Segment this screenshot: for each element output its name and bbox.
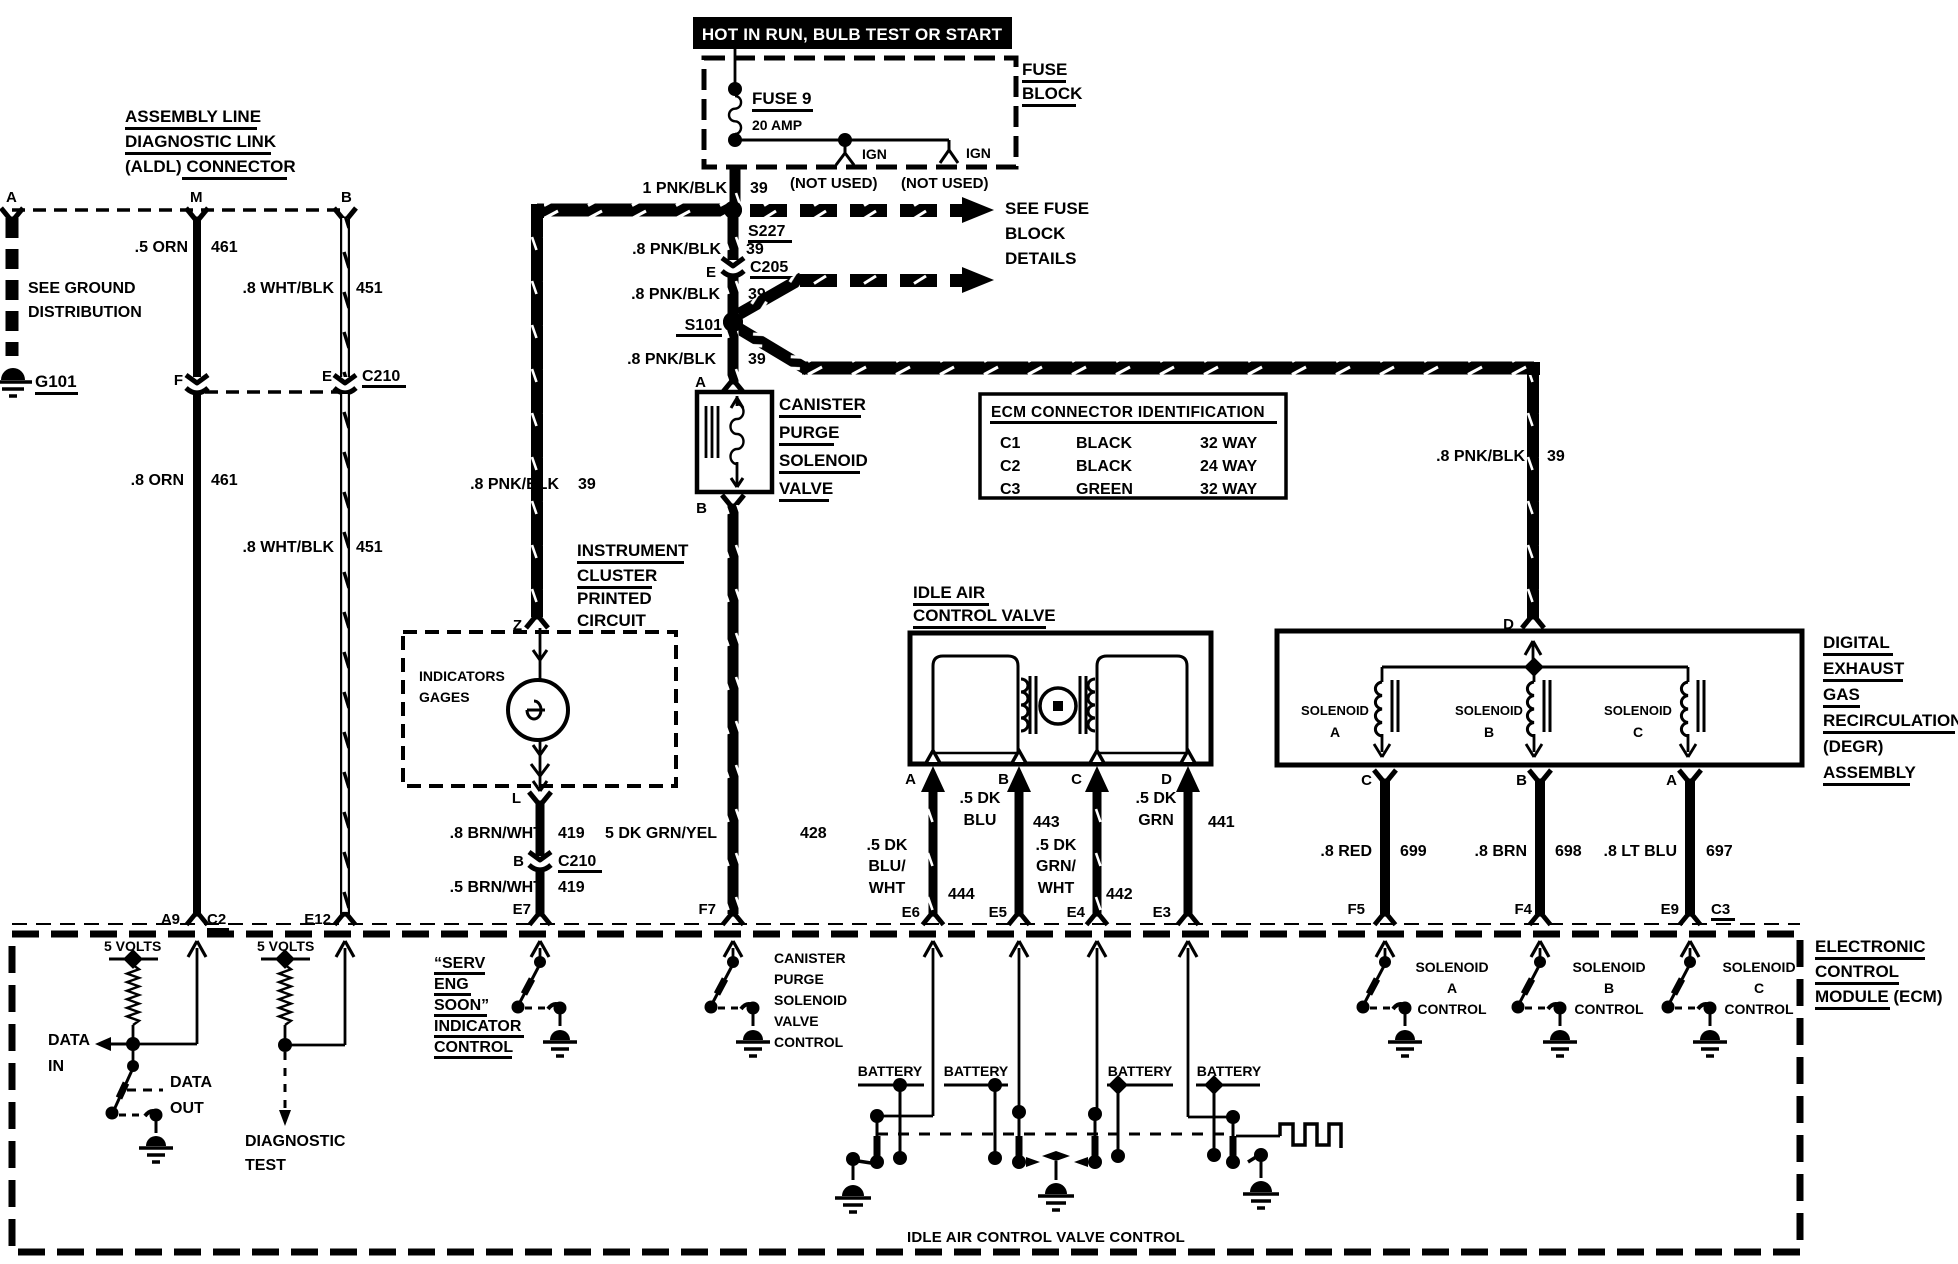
svg-text:E5: E5 (989, 904, 1007, 921)
svg-text:698: 698 (1555, 843, 1582, 860)
svg-text:697: 697 (1706, 843, 1733, 860)
svg-text:A: A (1666, 772, 1677, 789)
svg-text:A: A (695, 374, 706, 391)
svg-text:DATA: DATA (48, 1032, 91, 1049)
svg-text:IN: IN (48, 1058, 64, 1075)
svg-text:IGN: IGN (966, 145, 991, 161)
svg-text:461: 461 (211, 472, 238, 489)
svg-text:39: 39 (748, 351, 766, 368)
svg-text:HOT IN RUN, BULB TEST OR START: HOT IN RUN, BULB TEST OR START (702, 25, 1003, 44)
svg-text:32 WAY: 32 WAY (1200, 481, 1258, 498)
svg-text:(NOT USED): (NOT USED) (901, 175, 989, 192)
svg-text:TEST: TEST (245, 1157, 286, 1174)
svg-text:(DEGR): (DEGR) (1823, 737, 1883, 756)
svg-text:BATTERY: BATTERY (944, 1063, 1009, 1079)
svg-text:24 WAY: 24 WAY (1200, 458, 1258, 475)
svg-text:B: B (1604, 980, 1614, 996)
svg-text:BLACK: BLACK (1076, 458, 1132, 475)
svg-text:.8 PNK/BLK: .8 PNK/BLK (632, 241, 721, 258)
svg-text:C3: C3 (1711, 901, 1730, 918)
svg-text:SEE FUSE: SEE FUSE (1005, 199, 1089, 218)
svg-text:CANISTER: CANISTER (774, 950, 846, 966)
svg-text:444: 444 (948, 886, 975, 903)
svg-text:C1: C1 (1000, 435, 1021, 452)
svg-text:SOLENOID: SOLENOID (779, 451, 868, 470)
svg-text:FUSE: FUSE (1022, 60, 1067, 79)
svg-text:.8 PNK/BLK: .8 PNK/BLK (627, 351, 716, 368)
svg-text:.5 DK: .5 DK (1036, 837, 1077, 854)
svg-text:428: 428 (800, 825, 827, 842)
svg-text:.8 PNK/BLK: .8 PNK/BLK (631, 286, 720, 303)
svg-text:441: 441 (1208, 814, 1235, 831)
svg-text:BATTERY: BATTERY (858, 1063, 923, 1079)
svg-text:(ALDL) CONNECTOR: (ALDL) CONNECTOR (125, 157, 296, 176)
svg-text:B: B (1484, 724, 1494, 740)
svg-text:A: A (6, 189, 17, 206)
svg-text:.5 DK: .5 DK (1136, 790, 1177, 807)
svg-text:RECIRCULATION: RECIRCULATION (1823, 711, 1958, 730)
svg-text:GREEN: GREEN (1076, 481, 1133, 498)
svg-text:F4: F4 (1514, 901, 1532, 918)
svg-text:CLUSTER: CLUSTER (577, 566, 657, 585)
svg-text:E: E (706, 264, 716, 281)
svg-text:E3: E3 (1153, 904, 1171, 921)
svg-text:CONTROL: CONTROL (1724, 1001, 1794, 1017)
svg-text:.8 BRN: .8 BRN (1475, 843, 1527, 860)
svg-text:CIRCUIT: CIRCUIT (577, 611, 647, 630)
svg-text:MODULE (ECM): MODULE (ECM) (1815, 987, 1942, 1006)
svg-text:SOLENOID: SOLENOID (1455, 703, 1523, 718)
svg-text:CONTROL: CONTROL (1574, 1001, 1644, 1017)
svg-text:C: C (1754, 980, 1764, 996)
svg-text:F: F (174, 372, 183, 389)
svg-text:F5: F5 (1347, 901, 1365, 918)
svg-text:VALVE: VALVE (779, 479, 833, 498)
svg-text:C205: C205 (750, 259, 788, 276)
svg-text:E: E (322, 368, 332, 385)
svg-text:C210: C210 (362, 368, 400, 385)
svg-text:BLU: BLU (964, 812, 997, 829)
svg-text:A: A (905, 771, 916, 788)
svg-text:CONTROL: CONTROL (774, 1034, 844, 1050)
svg-text:“SERV: “SERV (434, 955, 486, 972)
svg-text:419: 419 (558, 825, 585, 842)
svg-text:1 PNK/BLK: 1 PNK/BLK (643, 180, 728, 197)
svg-text:.5 DK: .5 DK (960, 790, 1001, 807)
svg-text:BLOCK: BLOCK (1022, 84, 1083, 103)
svg-text:B: B (998, 771, 1009, 788)
svg-text:.8 WHT/BLK: .8 WHT/BLK (242, 539, 334, 556)
svg-text:F7: F7 (698, 901, 716, 918)
svg-text:C: C (1071, 771, 1082, 788)
svg-text:SOLENOID: SOLENOID (1722, 959, 1795, 975)
svg-text:PURGE: PURGE (779, 423, 839, 442)
svg-text:CONTROL: CONTROL (1417, 1001, 1487, 1017)
svg-text:DISTRIBUTION: DISTRIBUTION (28, 304, 142, 321)
svg-text:E9: E9 (1661, 901, 1679, 918)
svg-text:ELECTRONIC: ELECTRONIC (1815, 937, 1926, 956)
svg-text:39: 39 (750, 180, 768, 197)
svg-text:.8 PNK/BLK: .8 PNK/BLK (1436, 448, 1525, 465)
svg-text:B: B (513, 853, 524, 870)
svg-text:INDICATOR: INDICATOR (434, 1018, 522, 1035)
svg-text:E7: E7 (513, 901, 531, 918)
svg-text:CONTROL: CONTROL (1815, 962, 1899, 981)
svg-text:.8 RED: .8 RED (1320, 843, 1372, 860)
svg-text:ECM CONNECTOR IDENTIFICATION: ECM CONNECTOR IDENTIFICATION (991, 404, 1265, 421)
svg-text:443: 443 (1033, 814, 1060, 831)
svg-text:.5 BRN/WHT: .5 BRN/WHT (450, 879, 544, 896)
svg-text:B: B (341, 189, 352, 206)
svg-text:E12: E12 (304, 911, 331, 928)
svg-text:ASSEMBLY: ASSEMBLY (1823, 763, 1917, 782)
svg-text:(NOT USED): (NOT USED) (790, 175, 878, 192)
svg-text:BATTERY: BATTERY (1197, 1063, 1262, 1079)
svg-text:VALVE: VALVE (774, 1013, 819, 1029)
svg-text:SOLENOID: SOLENOID (774, 992, 847, 1008)
svg-text:GRN: GRN (1138, 812, 1174, 829)
svg-text:.8 BRN/WHT: .8 BRN/WHT (450, 825, 544, 842)
svg-text:PURGE: PURGE (774, 971, 824, 987)
svg-text:.5 DK: .5 DK (867, 837, 908, 854)
svg-text:L: L (512, 790, 521, 807)
svg-text:39: 39 (746, 241, 764, 258)
svg-text:442: 442 (1106, 886, 1133, 903)
svg-text:IDLE AIR: IDLE AIR (913, 583, 985, 602)
svg-text:IGN: IGN (862, 146, 887, 162)
svg-text:SOON”: SOON” (434, 997, 489, 1014)
svg-text:461: 461 (211, 239, 238, 256)
svg-text:32 WAY: 32 WAY (1200, 435, 1258, 452)
svg-text:DIGITAL: DIGITAL (1823, 633, 1890, 652)
svg-text:SOLENOID: SOLENOID (1415, 959, 1488, 975)
svg-text:G101: G101 (35, 372, 77, 391)
svg-text:.8 ORN: .8 ORN (131, 472, 184, 489)
svg-text:GAS: GAS (1823, 685, 1860, 704)
svg-text:451: 451 (356, 280, 383, 297)
svg-text:GAGES: GAGES (419, 689, 470, 705)
svg-text:.5 ORN: .5 ORN (135, 239, 188, 256)
svg-text:419: 419 (558, 879, 585, 896)
svg-text:OUT: OUT (170, 1100, 204, 1117)
svg-text:B: B (696, 500, 707, 517)
svg-text:20 AMP: 20 AMP (752, 117, 802, 133)
svg-text:SOLENOID: SOLENOID (1604, 703, 1672, 718)
svg-text:C3: C3 (1000, 481, 1021, 498)
svg-text:BLACK: BLACK (1076, 435, 1132, 452)
svg-text:M: M (190, 189, 203, 206)
svg-text:DATA: DATA (170, 1074, 213, 1091)
svg-text:D: D (1161, 771, 1172, 788)
svg-text:39: 39 (1547, 448, 1565, 465)
svg-text:S227: S227 (748, 223, 785, 240)
svg-text:.8 WHT/BLK: .8 WHT/BLK (242, 280, 334, 297)
svg-text:5 DK GRN/YEL: 5 DK GRN/YEL (605, 825, 717, 842)
svg-text:EXHAUST: EXHAUST (1823, 659, 1905, 678)
svg-text:A9: A9 (161, 911, 180, 928)
svg-text:PRINTED: PRINTED (577, 589, 652, 608)
svg-text:BLU/: BLU/ (868, 858, 906, 875)
svg-text:C: C (1633, 724, 1643, 740)
svg-text:39: 39 (578, 476, 596, 493)
svg-text:A: A (1330, 724, 1340, 740)
svg-text:CONTROL VALVE: CONTROL VALVE (913, 606, 1056, 625)
svg-text:GRN/: GRN/ (1036, 858, 1077, 875)
svg-text:SOLENOID: SOLENOID (1301, 703, 1369, 718)
svg-text:SOLENOID: SOLENOID (1572, 959, 1645, 975)
svg-text:DIAGNOSTIC LINK: DIAGNOSTIC LINK (125, 132, 277, 151)
svg-text:C2: C2 (207, 911, 226, 928)
svg-text:C2: C2 (1000, 458, 1021, 475)
svg-text:A: A (1447, 980, 1457, 996)
svg-text:WHT: WHT (869, 880, 906, 897)
svg-text:BLOCK: BLOCK (1005, 224, 1066, 243)
svg-text:DETAILS: DETAILS (1005, 249, 1076, 268)
svg-text:INSTRUMENT: INSTRUMENT (577, 541, 689, 560)
svg-text:C: C (1361, 772, 1372, 789)
svg-text:C210: C210 (558, 853, 596, 870)
svg-text:E4: E4 (1067, 904, 1086, 921)
svg-text:E6: E6 (902, 904, 920, 921)
svg-text:ASSEMBLY LINE: ASSEMBLY LINE (125, 107, 261, 126)
svg-text:B: B (1516, 772, 1527, 789)
svg-text:IDLE AIR CONTROL VALVE CONTROL: IDLE AIR CONTROL VALVE CONTROL (907, 1229, 1185, 1246)
svg-text:INDICATORS: INDICATORS (419, 668, 505, 684)
svg-text:SEE GROUND: SEE GROUND (28, 280, 136, 297)
svg-text:.8 PNK/BLK: .8 PNK/BLK (470, 476, 559, 493)
svg-text:.8 LT BLU: .8 LT BLU (1604, 843, 1677, 860)
svg-text:WHT: WHT (1038, 880, 1075, 897)
svg-text:FUSE 9: FUSE 9 (752, 89, 812, 108)
svg-text:S101: S101 (685, 317, 722, 334)
svg-text:CONTROL: CONTROL (434, 1039, 513, 1056)
svg-text:DIAGNOSTIC: DIAGNOSTIC (245, 1133, 346, 1150)
svg-text:CANISTER: CANISTER (779, 395, 866, 414)
svg-text:699: 699 (1400, 843, 1427, 860)
svg-text:451: 451 (356, 539, 383, 556)
svg-text:ENG: ENG (434, 976, 469, 993)
